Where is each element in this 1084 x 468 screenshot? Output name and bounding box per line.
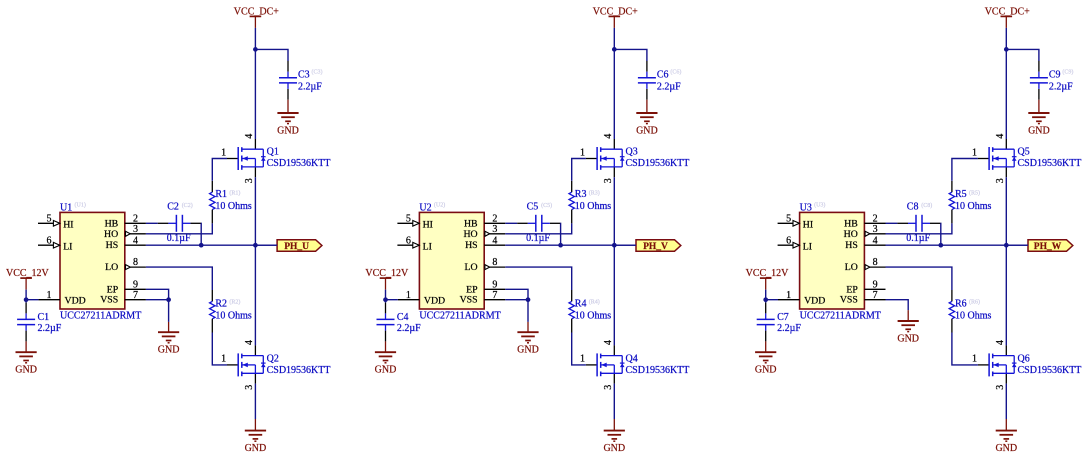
power VCC_12V (section 1) bbox=[6, 268, 50, 290]
wire phase node down to Q2 drain bbox=[254, 245, 256, 345]
svg-text:2.2µF: 2.2µF bbox=[657, 82, 681, 93]
ground below C7 bbox=[755, 352, 777, 376]
U1 pin 9 EP bbox=[107, 279, 146, 295]
wire R5 to Q5 gate bbox=[952, 159, 978, 181]
capacitor C1 bbox=[17, 303, 35, 342]
svg-text:GND: GND bbox=[15, 365, 37, 376]
junction EP/VSS bbox=[526, 297, 531, 302]
wire branch to C3 bbox=[255, 49, 288, 61]
svg-text:Q3: Q3 bbox=[626, 147, 638, 158]
IC U1 UCC27211ADRMT gate driver bbox=[60, 212, 125, 309]
svg-text:(R2): (R2) bbox=[229, 299, 240, 306]
port PH_W bbox=[1028, 240, 1073, 252]
wire phase node down to Q6 drain bbox=[1005, 245, 1007, 345]
svg-text:U3: U3 bbox=[800, 203, 812, 214]
svg-text:(R6): (R6) bbox=[969, 299, 980, 306]
transistor Q4 CSD19536KTT (low side) bbox=[586, 345, 625, 383]
transistor Q2 CSD19536KTT (low side) bbox=[227, 345, 266, 383]
IC U3 UCC27211ADRMT gate driver bbox=[800, 212, 865, 309]
svg-text:(R1): (R1) bbox=[229, 189, 240, 196]
svg-text:9: 9 bbox=[873, 279, 878, 290]
svg-text:GND: GND bbox=[636, 126, 658, 137]
svg-text:VCC_12V: VCC_12V bbox=[365, 268, 409, 279]
wire R4 to Q4 gate bbox=[572, 333, 586, 365]
svg-text:UCC27211ADRMT: UCC27211ADRMT bbox=[60, 311, 141, 322]
svg-text:GND: GND bbox=[517, 345, 539, 356]
svg-text:3: 3 bbox=[603, 178, 614, 183]
svg-text:2: 2 bbox=[492, 213, 497, 224]
svg-text:LO: LO bbox=[465, 262, 478, 273]
svg-text:HB: HB bbox=[844, 218, 858, 229]
junction bootstrap/HS bbox=[199, 243, 204, 248]
svg-text:CSD19536KTT: CSD19536KTT bbox=[267, 158, 331, 169]
svg-text:GND: GND bbox=[245, 443, 267, 454]
svg-text:GND: GND bbox=[603, 443, 625, 454]
resistor R5 10 Ohms bbox=[949, 181, 954, 224]
svg-text:Q4: Q4 bbox=[626, 353, 638, 364]
resistor R1 10 Ohms bbox=[210, 181, 215, 224]
svg-text:(C8): (C8) bbox=[921, 202, 932, 209]
wire EP to ground net bbox=[146, 289, 169, 299]
wire HS pin to phase net bbox=[886, 244, 1029, 246]
svg-text:HS: HS bbox=[845, 240, 858, 251]
svg-text:VDD: VDD bbox=[804, 295, 825, 306]
svg-text:GND: GND bbox=[375, 365, 397, 376]
svg-text:2: 2 bbox=[133, 213, 138, 224]
U3 pin 2 HB bbox=[844, 213, 885, 229]
svg-text:VSS: VSS bbox=[840, 295, 858, 306]
U1 pin 8 LO bbox=[105, 257, 146, 273]
U2 pin 9 EP bbox=[466, 279, 505, 295]
svg-text:(C3): (C3) bbox=[312, 69, 323, 76]
svg-text:R5: R5 bbox=[955, 189, 967, 200]
capacitor C8 bootstrap bbox=[897, 215, 940, 232]
svg-text:GND: GND bbox=[277, 126, 299, 137]
svg-text:(R4): (R4) bbox=[589, 299, 600, 306]
wire VCC_DC+ rail down to high-side drain bbox=[613, 28, 615, 139]
U3 pin 3 HO bbox=[844, 224, 886, 240]
wire VCC_12V to C1 bbox=[25, 300, 27, 303]
svg-text:GND: GND bbox=[995, 443, 1017, 454]
wire HB to C8 bbox=[886, 222, 898, 224]
svg-text:7: 7 bbox=[492, 290, 497, 301]
wire Q2 source to ground bbox=[254, 384, 256, 419]
svg-text:HO: HO bbox=[104, 229, 118, 240]
svg-text:HS: HS bbox=[106, 240, 119, 251]
transistor Q1 CSD19536KTT (high side) bbox=[227, 139, 266, 177]
wire phase node to port PH_V bbox=[614, 244, 636, 246]
svg-text:C9: C9 bbox=[1049, 70, 1061, 81]
resistor R6 10 Ohms bbox=[949, 290, 954, 333]
ground below C9 bbox=[1028, 113, 1050, 137]
svg-text:2.2µF: 2.2µF bbox=[777, 323, 801, 334]
junction VCC_12V/decoupling bbox=[763, 297, 768, 302]
wire VCC_12V to VDD bbox=[386, 290, 398, 300]
svg-text:LO: LO bbox=[105, 262, 118, 273]
ground below VSS bbox=[897, 321, 919, 345]
power VCC_DC+ (section 3) bbox=[985, 7, 1030, 28]
IC U2 UCC27211ADRMT gate driver bbox=[419, 212, 484, 309]
svg-text:4: 4 bbox=[492, 235, 497, 246]
svg-text:VCC_12V: VCC_12V bbox=[6, 268, 50, 279]
svg-text:Q5: Q5 bbox=[1018, 147, 1030, 158]
svg-text:10 Ohms: 10 Ohms bbox=[215, 310, 252, 321]
svg-text:1: 1 bbox=[580, 147, 585, 158]
svg-text:CSD19536KTT: CSD19536KTT bbox=[267, 365, 331, 376]
power VCC_12V (section 3) bbox=[746, 268, 790, 290]
svg-text:C1: C1 bbox=[38, 312, 50, 323]
wire branch to C9 bbox=[1006, 49, 1039, 61]
wire VSS to ground bbox=[505, 299, 528, 301]
ground below C6 bbox=[636, 113, 658, 137]
wire R3 to Q3 gate bbox=[572, 159, 586, 181]
wire VCC_12V to VDD bbox=[26, 290, 38, 300]
svg-text:7: 7 bbox=[873, 290, 878, 301]
svg-text:3: 3 bbox=[603, 385, 614, 390]
svg-text:3: 3 bbox=[492, 224, 497, 235]
U1 pin 7 VSS bbox=[100, 290, 146, 306]
wire C3 to ground lead bbox=[287, 100, 289, 113]
svg-text:0.1µF: 0.1µF bbox=[906, 233, 930, 244]
svg-text:4: 4 bbox=[873, 235, 878, 246]
U1 pin 1 VDD bbox=[38, 290, 85, 307]
wire R2 to Q2 gate bbox=[212, 333, 227, 365]
svg-text:CSD19536KTT: CSD19536KTT bbox=[626, 365, 690, 376]
port PH_U bbox=[277, 240, 322, 252]
svg-text:PH_U: PH_U bbox=[284, 242, 309, 252]
svg-text:EP: EP bbox=[466, 284, 478, 295]
wire branch to C6 bbox=[614, 49, 647, 61]
power VCC_DC+ (section 2) bbox=[593, 7, 638, 28]
svg-text:8: 8 bbox=[873, 257, 878, 268]
svg-text:VSS: VSS bbox=[100, 295, 118, 306]
svg-text:C8: C8 bbox=[907, 202, 919, 213]
svg-text:(R3): (R3) bbox=[589, 189, 600, 196]
svg-text:(C6): (C6) bbox=[670, 69, 681, 76]
svg-text:R1: R1 bbox=[215, 189, 227, 200]
svg-text:(C2): (C2) bbox=[182, 202, 193, 209]
capacitor C3 bbox=[279, 61, 297, 100]
svg-text:3: 3 bbox=[995, 385, 1006, 390]
ground below C1 bbox=[15, 352, 37, 376]
wire LO to R4 bbox=[505, 267, 571, 290]
wire C7 to ground lead bbox=[765, 341, 767, 352]
U2 pin 8 LO bbox=[465, 257, 506, 273]
ground below VSS bbox=[158, 332, 180, 356]
U3 pin 1 VDD bbox=[778, 290, 825, 307]
transistor Q6 CSD19536KTT (low side) bbox=[978, 345, 1017, 383]
ground below C3 bbox=[277, 113, 299, 137]
svg-text:5: 5 bbox=[406, 213, 411, 224]
wire HO to R5 bbox=[886, 223, 952, 234]
svg-text:0.1µF: 0.1µF bbox=[526, 233, 550, 244]
U2 pin 1 VDD bbox=[398, 290, 445, 307]
junction bootstrap/HS bbox=[558, 243, 563, 248]
ground below Q2 bbox=[245, 431, 267, 455]
svg-text:C3: C3 bbox=[298, 70, 310, 81]
wire C4 to ground lead bbox=[385, 341, 387, 352]
wire HO to R1 bbox=[146, 223, 212, 234]
svg-text:GND: GND bbox=[755, 365, 777, 376]
svg-text:6: 6 bbox=[786, 235, 791, 246]
svg-text:5: 5 bbox=[47, 213, 52, 224]
ground below VSS bbox=[517, 332, 539, 356]
svg-text:HI: HI bbox=[63, 219, 73, 230]
junction VCC_12V/decoupling bbox=[383, 297, 388, 302]
U3 pin 4 HS bbox=[845, 235, 885, 251]
svg-text:4: 4 bbox=[603, 134, 614, 139]
wire Q5 source to phase node bbox=[1005, 177, 1007, 245]
svg-text:CSD19536KTT: CSD19536KTT bbox=[1018, 365, 1082, 376]
port PH_V bbox=[636, 240, 681, 252]
svg-text:6: 6 bbox=[406, 235, 411, 246]
U3 pin 8 LO bbox=[845, 257, 886, 273]
U2 pin 5 HI bbox=[397, 213, 433, 230]
resistor R3 10 Ohms bbox=[569, 181, 574, 224]
svg-text:4: 4 bbox=[244, 340, 255, 345]
U3 pin 9 EP bbox=[846, 279, 885, 295]
svg-text:C5: C5 bbox=[527, 202, 539, 213]
svg-text:5: 5 bbox=[786, 213, 791, 224]
U1 pin 5 HI bbox=[38, 213, 74, 230]
svg-text:3: 3 bbox=[995, 178, 1006, 183]
svg-text:1: 1 bbox=[221, 147, 226, 158]
wire HB to C5 bbox=[505, 222, 517, 224]
svg-text:Q2: Q2 bbox=[267, 353, 279, 364]
svg-text:VDD: VDD bbox=[65, 295, 86, 306]
wire HO to R3 bbox=[505, 223, 571, 234]
wire C1 to ground lead bbox=[25, 341, 27, 352]
transistor Q3 CSD19536KTT (high side) bbox=[586, 139, 625, 177]
wire HS pin to phase net bbox=[146, 244, 277, 246]
svg-text:(U1): (U1) bbox=[75, 201, 86, 208]
svg-text:7: 7 bbox=[133, 290, 138, 301]
svg-text:R4: R4 bbox=[575, 298, 587, 309]
wire VCC_DC+ rail down to high-side drain bbox=[1005, 28, 1007, 139]
U2 pin 7 VSS bbox=[460, 290, 506, 306]
svg-text:10 Ohms: 10 Ohms bbox=[955, 310, 992, 321]
svg-text:6: 6 bbox=[47, 235, 52, 246]
wire phase node to port PH_W bbox=[1006, 244, 1028, 246]
U3 pin 6 LI bbox=[778, 235, 812, 252]
svg-text:C4: C4 bbox=[397, 312, 409, 323]
wire VSS to ground bbox=[146, 299, 169, 301]
svg-text:Q1: Q1 bbox=[267, 147, 279, 158]
wire EP to ground net bbox=[505, 289, 528, 299]
svg-text:U1: U1 bbox=[60, 203, 72, 214]
svg-text:HI: HI bbox=[423, 219, 433, 230]
wire HS pin to phase net bbox=[505, 244, 636, 246]
junction bootstrap/HS bbox=[938, 243, 943, 248]
junction EP/VSS bbox=[166, 297, 171, 302]
junction VCC_DC+/decoupling branch bbox=[253, 47, 258, 52]
svg-text:PH_V: PH_V bbox=[643, 242, 668, 252]
U1 pin 3 HO bbox=[104, 224, 146, 240]
svg-text:CSD19536KTT: CSD19536KTT bbox=[626, 158, 690, 169]
svg-text:10 Ohms: 10 Ohms bbox=[955, 201, 992, 212]
svg-text:LI: LI bbox=[423, 241, 432, 252]
svg-text:2.2µF: 2.2µF bbox=[38, 323, 62, 334]
svg-text:10 Ohms: 10 Ohms bbox=[575, 310, 612, 321]
svg-text:9: 9 bbox=[133, 279, 138, 290]
resistor R2 10 Ohms bbox=[210, 290, 215, 333]
junction VCC_DC+/decoupling branch bbox=[1004, 47, 1009, 52]
svg-text:2.2µF: 2.2µF bbox=[1049, 82, 1073, 93]
svg-text:8: 8 bbox=[133, 257, 138, 268]
wire C8 to HS net bbox=[940, 223, 942, 245]
svg-text:LO: LO bbox=[845, 262, 858, 273]
wire Q4 source to ground bbox=[613, 384, 615, 419]
svg-text:C7: C7 bbox=[777, 312, 789, 323]
U2 pin 6 LI bbox=[397, 235, 431, 252]
wire VCC_12V to C7 bbox=[765, 300, 767, 303]
power VCC_DC+ (section 1) bbox=[234, 7, 279, 28]
ground below Q6 bbox=[995, 431, 1017, 455]
svg-text:9: 9 bbox=[492, 279, 497, 290]
svg-text:3: 3 bbox=[244, 385, 255, 390]
svg-text:1: 1 bbox=[221, 354, 226, 365]
svg-text:4: 4 bbox=[244, 134, 255, 139]
svg-text:GND: GND bbox=[1028, 126, 1050, 137]
svg-text:4: 4 bbox=[603, 340, 614, 345]
svg-text:Q6: Q6 bbox=[1018, 353, 1030, 364]
ground below Q4 bbox=[603, 431, 625, 455]
capacitor C6 bbox=[638, 61, 656, 100]
svg-text:R2: R2 bbox=[215, 298, 227, 309]
svg-text:C2: C2 bbox=[167, 202, 179, 213]
svg-text:1: 1 bbox=[406, 290, 411, 301]
svg-text:R6: R6 bbox=[955, 298, 967, 309]
svg-text:UCC27211ADRMT: UCC27211ADRMT bbox=[419, 311, 500, 322]
wire phase node down to Q4 drain bbox=[613, 245, 615, 345]
svg-text:1: 1 bbox=[580, 354, 585, 365]
wire C5 to HS net bbox=[559, 223, 561, 245]
svg-text:2.2µF: 2.2µF bbox=[397, 323, 421, 334]
svg-text:UCC27211ADRMT: UCC27211ADRMT bbox=[800, 311, 881, 322]
svg-text:HO: HO bbox=[463, 229, 477, 240]
svg-text:(C5): (C5) bbox=[541, 202, 552, 209]
svg-text:HS: HS bbox=[465, 240, 478, 251]
capacitor C4 bbox=[377, 303, 395, 342]
U2 pin 2 HB bbox=[464, 213, 505, 229]
capacitor C9 bbox=[1030, 61, 1048, 100]
svg-text:HI: HI bbox=[803, 219, 813, 230]
svg-text:HB: HB bbox=[464, 218, 478, 229]
svg-text:3: 3 bbox=[873, 224, 878, 235]
svg-text:2.2µF: 2.2µF bbox=[298, 82, 322, 93]
junction VCC_12V/decoupling bbox=[24, 297, 29, 302]
wire R6 to Q6 gate bbox=[952, 333, 978, 365]
svg-text:VSS: VSS bbox=[460, 295, 478, 306]
svg-text:(R5): (R5) bbox=[969, 189, 980, 196]
svg-text:LI: LI bbox=[803, 241, 812, 252]
svg-text:10 Ohms: 10 Ohms bbox=[215, 201, 252, 212]
transistor Q5 CSD19536KTT (high side) bbox=[978, 139, 1017, 177]
U2 pin 4 HS bbox=[465, 235, 505, 251]
svg-text:3: 3 bbox=[244, 178, 255, 183]
U3 pin 7 VSS bbox=[840, 290, 886, 306]
svg-text:GND: GND bbox=[897, 334, 919, 345]
wire Q6 source to ground bbox=[1005, 384, 1007, 419]
svg-text:2: 2 bbox=[873, 213, 878, 224]
wire phase node to port PH_U bbox=[255, 244, 277, 246]
svg-text:VDD: VDD bbox=[424, 295, 445, 306]
svg-text:10 Ohms: 10 Ohms bbox=[575, 201, 612, 212]
svg-text:(C9): (C9) bbox=[1062, 69, 1073, 76]
svg-text:EP: EP bbox=[107, 284, 119, 295]
U1 pin 4 HS bbox=[106, 235, 146, 251]
wire Q1 source to phase node bbox=[254, 177, 256, 245]
wire VCC_DC+ rail down to high-side drain bbox=[254, 28, 256, 139]
svg-text:4: 4 bbox=[995, 340, 1006, 345]
svg-text:0.1µF: 0.1µF bbox=[167, 233, 191, 244]
svg-text:1: 1 bbox=[47, 290, 52, 301]
svg-text:1: 1 bbox=[972, 354, 977, 365]
svg-text:(U3): (U3) bbox=[814, 201, 825, 208]
svg-text:U2: U2 bbox=[419, 203, 431, 214]
svg-text:R3: R3 bbox=[575, 189, 587, 200]
svg-text:1: 1 bbox=[972, 147, 977, 158]
svg-text:4: 4 bbox=[133, 235, 138, 246]
svg-text:VCC_12V: VCC_12V bbox=[746, 268, 790, 279]
power VCC_12V (section 2) bbox=[365, 268, 409, 290]
svg-text:PH_W: PH_W bbox=[1034, 242, 1062, 252]
U3 pin 5 HI bbox=[778, 213, 814, 230]
junction VCC_DC+/decoupling branch bbox=[612, 47, 617, 52]
capacitor C2 bootstrap bbox=[158, 215, 201, 232]
U1 pin 6 LI bbox=[38, 235, 72, 252]
wire C9 to ground lead bbox=[1038, 100, 1040, 113]
capacitor C7 bbox=[757, 303, 775, 342]
wire VCC_12V to C4 bbox=[385, 300, 387, 303]
wire Q3 source to phase node bbox=[613, 177, 615, 245]
svg-text:HB: HB bbox=[105, 218, 119, 229]
junction phase node bbox=[612, 243, 617, 248]
svg-text:1: 1 bbox=[786, 290, 791, 301]
svg-text:LI: LI bbox=[63, 241, 72, 252]
junction phase node bbox=[253, 243, 258, 248]
junction phase node bbox=[1004, 243, 1009, 248]
svg-text:(U2): (U2) bbox=[434, 201, 445, 208]
wire HB to C2 bbox=[146, 222, 158, 224]
wire C6 to ground lead bbox=[646, 100, 648, 113]
svg-text:8: 8 bbox=[492, 257, 497, 268]
wire R1 to Q1 gate bbox=[212, 159, 227, 181]
svg-text:CSD19536KTT: CSD19536KTT bbox=[1018, 158, 1082, 169]
capacitor C5 bootstrap bbox=[517, 215, 560, 232]
wire LO to R2 bbox=[146, 267, 212, 290]
svg-text:GND: GND bbox=[158, 345, 180, 356]
svg-text:3: 3 bbox=[133, 224, 138, 235]
svg-text:C6: C6 bbox=[657, 70, 669, 81]
wire LO to R6 bbox=[886, 267, 952, 290]
U2 pin 3 HO bbox=[463, 224, 505, 240]
svg-text:EP: EP bbox=[846, 284, 858, 295]
ground below C4 bbox=[375, 352, 397, 376]
svg-text:HO: HO bbox=[844, 229, 858, 240]
resistor R4 10 Ohms bbox=[569, 290, 574, 333]
U1 pin 2 HB bbox=[105, 213, 146, 229]
wire VSS to ground bbox=[886, 300, 909, 311]
wire VCC_12V to VDD bbox=[766, 290, 778, 300]
svg-text:4: 4 bbox=[995, 134, 1006, 139]
wire C2 to HS net bbox=[200, 223, 202, 245]
